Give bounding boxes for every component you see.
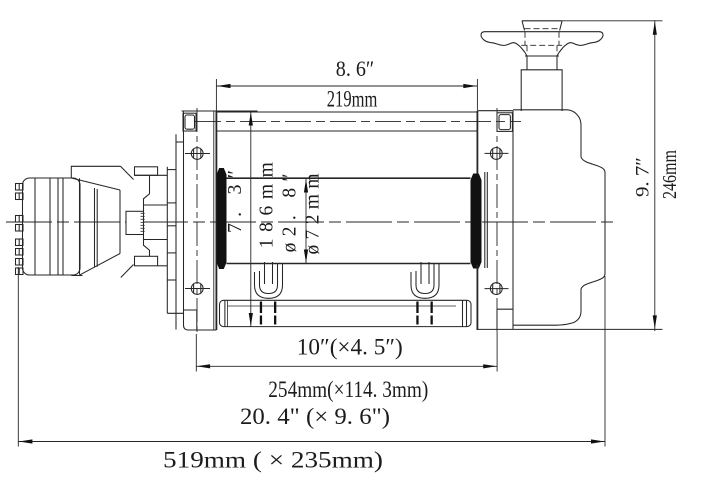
left top screw: [185, 148, 210, 160]
left side plate inner edge: [215, 111, 217, 330]
roller right seams: [462, 300, 464, 326]
right side plate inner edge: [476, 111, 478, 174]
right tie rod nut: [497, 113, 512, 132]
right plate foot notch: [497, 309, 513, 329]
bell housing top plate: [71, 166, 120, 178]
svg-text:7. 3″: 7. 3″: [224, 170, 246, 233]
roller highlight line: [228, 305, 457, 307]
clutch neck: [525, 53, 559, 70]
clutch cap: [522, 21, 562, 31]
bracket rungs: [176, 141, 184, 143]
svg-text:20. 4" (× 9. 6"): 20. 4" (× 9. 6"): [240, 404, 390, 429]
svg-text:219mm: 219mm: [327, 87, 378, 112]
dim 10/254 extension lines: [195, 334, 197, 372]
dim 20.4/519 extension lines: [17, 267, 19, 447]
top tie rod: [216, 111, 477, 113]
clutch block: [521, 70, 562, 111]
drum core bottom edge: [227, 263, 471, 265]
left side plate top step line / 7.3 top extension: [182, 110, 258, 112]
right plate bottom edge: [477, 328, 662, 330]
svg-text:10″(×4. 5″): 10″(×4. 5″): [297, 335, 403, 360]
svg-text:186mm: 186mm: [256, 162, 277, 248]
cable clamp bracket left: [255, 262, 283, 325]
dim 7.3/186 line: [250, 112, 252, 327]
gear housing outline: [513, 110, 605, 325]
left tie rod nut: [183, 113, 196, 131]
bearing block top tab: [135, 167, 158, 176]
bell cone inner cylinder edges: [94, 188, 96, 268]
motor M1 body: [23, 178, 81, 275]
bearing block right edge: [166, 167, 168, 313]
svg-text:ø72mm: ø72mm: [302, 174, 323, 255]
bell cone bottom diagonal: [80, 254, 120, 275]
bottom roller: [220, 300, 472, 326]
left side plate inner seam: [213, 111, 215, 330]
svg-text:254mm(×114. 3mm): 254mm(×114. 3mm): [268, 377, 428, 402]
cable clamp bracket right: [411, 262, 439, 325]
dim 8.6/219 line: [216, 85, 477, 87]
left bottom screw: [185, 283, 210, 295]
svg-text:519mm ( × 235mm): 519mm ( × 235mm): [163, 448, 383, 473]
bell bottom lip: [71, 275, 82, 277]
centerline main axis: [6, 221, 618, 223]
dim 8.6/219 extension lines: [215, 79, 217, 111]
bearing block left profile lower: [144, 235, 150, 257]
bell cone tip edge: [119, 190, 121, 254]
coupling spline shaft: [126, 211, 144, 234]
svg-text:8. 6″: 8. 6″: [336, 56, 375, 81]
bearing block top edge: [135, 174, 168, 176]
centerline tie rod axis: [195, 121, 521, 123]
left plate foot notch: [184, 310, 197, 330]
right bottom screw: [485, 283, 509, 295]
bearing block bottom tab: [135, 256, 158, 266]
dim 10/254 line: [196, 365, 497, 367]
svg-text:ø2. 8″: ø2. 8″: [280, 173, 301, 252]
bell cone chamfer bottom: [121, 265, 134, 278]
svg-text:9. 7″: 9. 7″: [633, 157, 654, 197]
bearing block left profile upper: [144, 175, 150, 211]
drum flange rim lines right: [484, 172, 486, 268]
dim 20.4/519 line: [18, 441, 605, 443]
drum core top edge: [227, 177, 471, 179]
dim dia72 line: [305, 179, 307, 264]
roller left cap line: [224, 300, 226, 326]
centerline left bolt line: [196, 108, 198, 334]
support plate: [175, 134, 177, 329]
drum flange left (black band): [217, 168, 227, 269]
motor ribs: [34, 178, 36, 274]
dim 9.7/246 line: [654, 20, 656, 331]
drum flange right (black band): [471, 174, 482, 269]
motor port tabs left: [16, 184, 24, 275]
clutch hidden lines: [521, 29, 562, 52]
clutch handle wings: [481, 32, 603, 53]
right side plate top edge: [477, 110, 513, 112]
svg-text:246mm: 246mm: [660, 150, 681, 199]
right top screw: [485, 148, 509, 160]
right side plate right edge: [512, 111, 514, 329]
centerline right bolt line: [496, 108, 498, 332]
bearing block seams: [144, 204, 168, 206]
dim 9.7/246 extension lines: [562, 20, 662, 22]
bell cone chamfer top: [121, 166, 134, 179]
left side plate: [184, 111, 217, 330]
bell cone top diagonal: [71, 178, 120, 190]
